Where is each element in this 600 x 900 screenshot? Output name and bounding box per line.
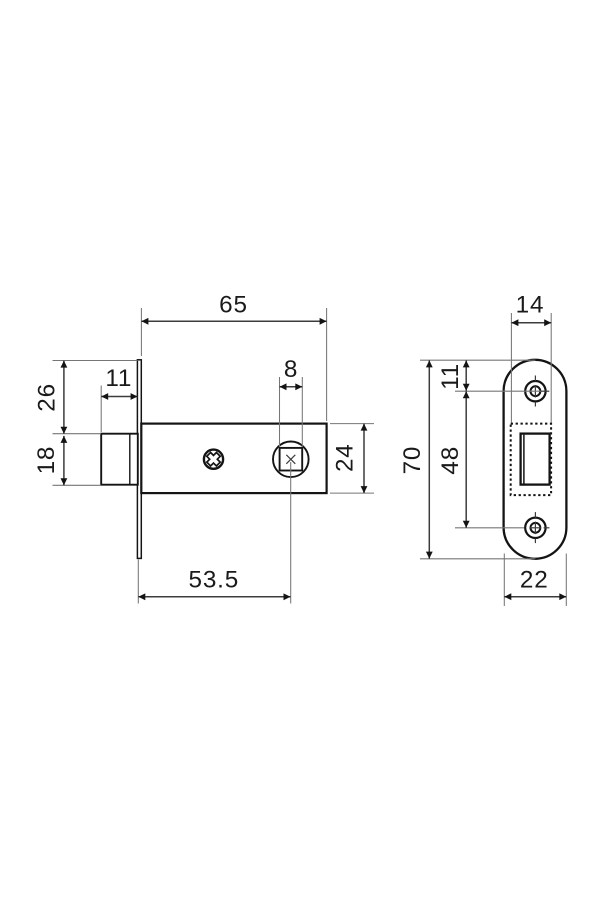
top screw hole — [525, 376, 549, 407]
strike plate (stadium outline) — [504, 360, 567, 559]
dashed latch opening boundary — [511, 424, 551, 496]
latch body case — [141, 424, 326, 494]
dimension 53.5 — [138, 560, 290, 604]
svg-text:24: 24 — [331, 443, 358, 472]
svg-text:53.5: 53.5 — [189, 566, 240, 593]
svg-text:22: 22 — [520, 566, 549, 593]
faceplate (latch front plate, side view) — [137, 360, 141, 559]
dimension 18 — [33, 436, 101, 485]
latch box (recess) — [521, 434, 550, 485]
dimension 14 — [511, 292, 551, 423]
svg-text:8: 8 — [284, 356, 298, 383]
spindle square hole — [280, 448, 303, 471]
dimension 65 — [141, 291, 326, 421]
svg-text:11: 11 — [105, 365, 132, 392]
bottom screw hole — [525, 512, 549, 543]
svg-text:65: 65 — [219, 291, 248, 318]
svg-text:26: 26 — [33, 383, 60, 412]
dimension 70 — [399, 360, 536, 559]
dimension 26 — [33, 361, 137, 434]
dimension 48 (screw spacing) — [437, 391, 524, 528]
dimension 22 — [504, 554, 566, 607]
svg-text:18: 18 — [33, 446, 60, 475]
spindle follower circle — [273, 442, 309, 478]
latch bolt — [101, 434, 138, 485]
svg-text:48: 48 — [437, 446, 464, 475]
svg-text:70: 70 — [399, 446, 426, 475]
spindle center cross — [286, 455, 295, 464]
dimension 24 — [330, 424, 374, 494]
svg-text:11: 11 — [437, 363, 464, 390]
dimension 11 (top screw offset) — [437, 360, 541, 391]
dimension 11 (bolt projection) — [101, 365, 137, 432]
latch bolt bevel line — [129, 434, 131, 484]
spindle centerline — [290, 462, 292, 604]
screw boss symbol (circle with cross) — [204, 450, 223, 469]
latch box depth line — [523, 435, 525, 484]
dimension 8 — [280, 356, 303, 447]
svg-text:14: 14 — [516, 292, 545, 319]
